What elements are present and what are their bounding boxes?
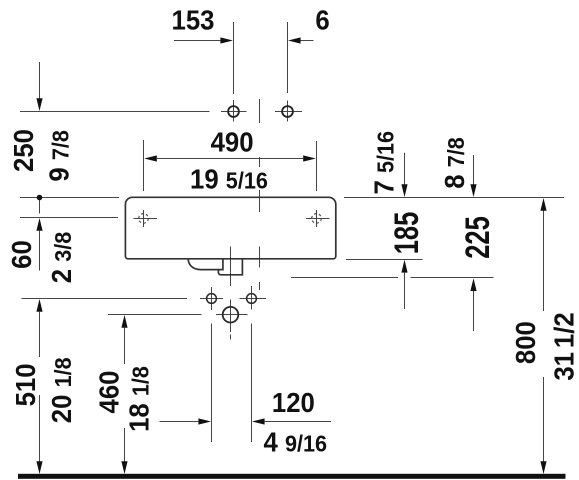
svg-text:225: 225 bbox=[460, 216, 497, 259]
label 4 9/16 bbox=[264, 426, 328, 457]
label 185 bbox=[389, 212, 426, 255]
arrowhead 460 down bbox=[121, 461, 127, 474]
wire 185 up-arrow tail bbox=[404, 273, 406, 309]
label 250 bbox=[8, 129, 39, 172]
wire 120 dimension tails y=421.5 bbox=[160, 421, 199, 423]
arrowhead 490 left bbox=[144, 155, 157, 161]
wire 153 extension line x=233.5 bbox=[233, 22, 235, 94]
wire 120 extension line left x=211.5 bbox=[211, 324, 213, 443]
node drain hole right crosshair bbox=[240, 298, 267, 300]
arrowhead 185 up bbox=[401, 260, 407, 273]
wire 510 dimension line x=39.5 bbox=[39, 312, 41, 357]
wire 225 up-arrow tail bbox=[473, 291, 475, 331]
arrowhead 490 right bbox=[303, 155, 316, 161]
arrowhead 250 down bbox=[36, 98, 42, 111]
wire 120 extension line right x=251.5 bbox=[251, 324, 253, 443]
arrowhead 510 up bbox=[36, 299, 42, 312]
svg-text:510: 510 bbox=[10, 363, 41, 406]
faucet hole left bbox=[228, 106, 239, 117]
svg-text:250: 250 bbox=[8, 129, 39, 172]
label 120 bbox=[272, 387, 315, 418]
node faucet hole right crosshair bbox=[275, 111, 302, 113]
arrowhead 800 down bbox=[540, 461, 546, 474]
svg-text:2 3/8: 2 3/8 bbox=[46, 232, 77, 284]
label 2 3/8 bbox=[46, 232, 77, 284]
wire basin bottom extension y=259.5 bbox=[346, 259, 423, 261]
label 19 5/16 bbox=[190, 163, 268, 194]
svg-text:8 7/8: 8 7/8 bbox=[439, 137, 470, 189]
wire basin centre line x=259.5 dashed segments bbox=[259, 99, 261, 123]
arrowhead 120 left bbox=[252, 418, 265, 424]
label 7 5/16 bbox=[369, 131, 400, 195]
wire 460 dimension line x=124.5 bbox=[124, 328, 126, 364]
floor line bbox=[18, 474, 566, 479]
arrowhead 60 up bbox=[36, 218, 42, 231]
wire 6 dimension line bbox=[300, 40, 314, 42]
label 20 1/8 bbox=[46, 357, 77, 423]
faucet hole right bbox=[282, 106, 293, 117]
wire 153 dimension line bbox=[174, 40, 221, 42]
arrowhead 800 up bbox=[540, 198, 546, 211]
wire 460 reference line y=314.5 bbox=[108, 314, 202, 316]
wire 185 down-arrow tail bbox=[404, 153, 406, 185]
svg-text:120: 120 bbox=[272, 387, 315, 418]
mounting hole right (dashed) bbox=[306, 210, 330, 227]
label 225 bbox=[460, 216, 497, 259]
arrowhead 120 right bbox=[198, 418, 211, 424]
svg-text:31 1/2: 31 1/2 bbox=[549, 312, 579, 380]
wire top-left reference line y=111.5 bbox=[20, 111, 210, 113]
wire 800 dimension line x=543.5 bbox=[543, 211, 545, 312]
svg-text:19 5/16: 19 5/16 bbox=[190, 163, 268, 194]
label 8 7/8 bbox=[439, 137, 470, 189]
wire right reference line y=197.5 bbox=[344, 197, 564, 199]
node chain dot bbox=[37, 195, 43, 201]
arrowhead 225 up bbox=[470, 278, 476, 291]
svg-text:6: 6 bbox=[315, 5, 329, 36]
label 460 bbox=[94, 371, 125, 414]
siphon curve under basin bbox=[188, 259, 223, 270]
drain hole right bbox=[247, 294, 257, 304]
arrowhead 510 down bbox=[36, 461, 42, 474]
arrowhead 153 right bbox=[220, 37, 233, 43]
arrowhead 460 up bbox=[121, 315, 127, 328]
large drain hole bbox=[223, 307, 239, 323]
node faucet hole left crosshair bbox=[221, 111, 247, 113]
wire left reference line y=217.5 bbox=[20, 217, 118, 219]
wire 490 extension line right x=316.5 bbox=[316, 141, 318, 191]
label 800 bbox=[510, 321, 541, 364]
wire 250-dim leader x=39.5 top bbox=[39, 62, 41, 99]
label 6 bbox=[315, 5, 329, 36]
svg-text:153: 153 bbox=[172, 5, 215, 36]
wire 225 down-arrow tail bbox=[473, 155, 475, 185]
arrowhead 225 down bbox=[470, 184, 476, 197]
label 510 bbox=[10, 363, 41, 406]
drain tailpiece bbox=[218, 259, 242, 275]
node large drain crosshair bbox=[216, 314, 248, 316]
node drain hole left crosshair bbox=[200, 298, 223, 300]
svg-text:18 1/8: 18 1/8 bbox=[124, 366, 155, 432]
arrowhead 185 down bbox=[401, 184, 407, 197]
svg-text:460: 460 bbox=[94, 371, 125, 414]
svg-text:490: 490 bbox=[211, 127, 254, 158]
wire 60-dim leader through dot bbox=[39, 198, 41, 214]
label 153 bbox=[172, 5, 215, 36]
wire 490 extension line left x=143.5 bbox=[143, 140, 145, 191]
svg-text:20 1/8: 20 1/8 bbox=[46, 357, 77, 423]
wire 490 dimension line bbox=[157, 158, 303, 160]
label 31 1/2 bbox=[549, 312, 579, 380]
svg-text:4 9/16: 4 9/16 bbox=[264, 426, 328, 457]
wire left reference line y=197.5 bbox=[20, 197, 119, 199]
drain hole left bbox=[207, 294, 217, 304]
svg-text:60: 60 bbox=[6, 240, 37, 269]
label 18 1/8 bbox=[124, 366, 155, 432]
label 60 bbox=[6, 240, 37, 269]
arrowhead 6 left bbox=[288, 37, 301, 43]
wire trap bottom extension y=276.5 bbox=[291, 277, 398, 279]
svg-text:800: 800 bbox=[510, 321, 541, 364]
wire 510 reference line y=298.5 bbox=[22, 298, 188, 300]
label 490 bbox=[211, 127, 254, 158]
svg-text:9 7/8: 9 7/8 bbox=[43, 130, 74, 182]
svg-text:185: 185 bbox=[389, 212, 426, 255]
washbasin outline bbox=[125, 197, 335, 258]
svg-text:7 5/16: 7 5/16 bbox=[369, 131, 400, 195]
mounting hole left (dashed) bbox=[134, 210, 158, 227]
wire 6 extension line x=287.5 bbox=[287, 22, 289, 93]
label 9 7/8 bbox=[43, 130, 74, 182]
